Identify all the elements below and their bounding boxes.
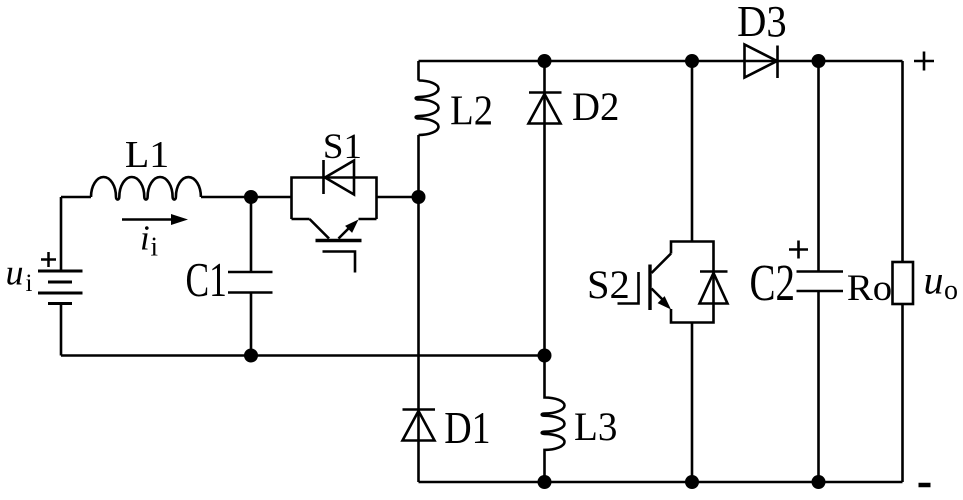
transistor S2 IGBT symbol (collector, emitter, gate) [618,254,672,304]
output minus sign [919,483,931,488]
svg-text:u: u [924,258,944,303]
antiparallel diode of switch S1 [324,160,355,195]
switch S1 body outline [292,178,377,220]
svg-text:L1: L1 [125,134,169,176]
wire output right branch bottom [901,304,904,482]
wire D1 branch [417,197,420,482]
transistor S1 emitter arrowhead [345,220,358,233]
capacitor C1 [228,197,273,356]
wire S2 branch bottom [691,323,694,483]
current arrow ii shaft [122,218,176,221]
svg-text:L2: L2 [450,87,493,134]
svg-text:i: i [140,219,150,258]
svg-text:S1: S1 [323,125,362,165]
wire input top rail [61,196,419,199]
inductor L2 [416,81,439,136]
resistor Ro [893,262,914,304]
battery source ui [38,271,83,304]
battery plus sign [41,252,56,267]
node at D2 top [538,54,552,68]
node at C1 bottom [244,349,258,363]
node at S2 bottom [685,475,699,489]
svg-text:C2: C2 [750,254,796,312]
wire C2 branch [817,61,820,482]
antiparallel diode of switch S2 [700,272,728,304]
wire S2 branch top [691,61,694,242]
wire battery bottom lead [60,304,63,356]
wire top rail [419,60,903,63]
wire battery top lead [60,197,63,271]
current arrow ii head [171,214,188,225]
svg-text:o: o [944,275,958,306]
node at C1 top [244,190,258,204]
wire L2 branch top [417,61,420,81]
svg-text:D1: D1 [444,404,490,454]
inductor L3 [542,356,565,483]
diode D1 [403,410,436,441]
node at C2 top [812,54,826,68]
inductor L1 [91,177,201,200]
node at S1 right / L2 bottom [412,190,426,204]
diode D3 [745,45,778,79]
node at C2 bottom [812,475,826,489]
wire mid rail [61,354,545,357]
node at S2 top [685,54,699,68]
node at L3 top [538,349,552,363]
diode D2 [529,93,562,124]
capacitor C2 plus sign [789,241,808,259]
svg-text:u: u [6,253,24,293]
wire D2-L3 branch [543,61,546,356]
svg-text:S2: S2 [587,262,630,307]
wire bottom rail [419,481,903,484]
transistor S2 emitter arrowhead [658,296,671,309]
svg-text:L3: L3 [574,405,617,450]
svg-text:D2: D2 [572,84,619,129]
svg-text:i: i [151,232,159,262]
wire output right branch top [901,61,904,262]
svg-text:i: i [26,270,33,297]
svg-text:Ro: Ro [847,268,892,309]
capacitor C2 [797,272,844,292]
transistor S1 IGBT symbol (collector, emitter, gate) [310,219,356,273]
svg-text:D3: D3 [737,0,787,46]
wire L2 branch bottom [417,135,420,197]
svg-text:C1: C1 [186,254,227,308]
switch S2 body outline [671,242,714,323]
node at L3 bottom [538,475,552,489]
output plus sign [914,52,934,71]
